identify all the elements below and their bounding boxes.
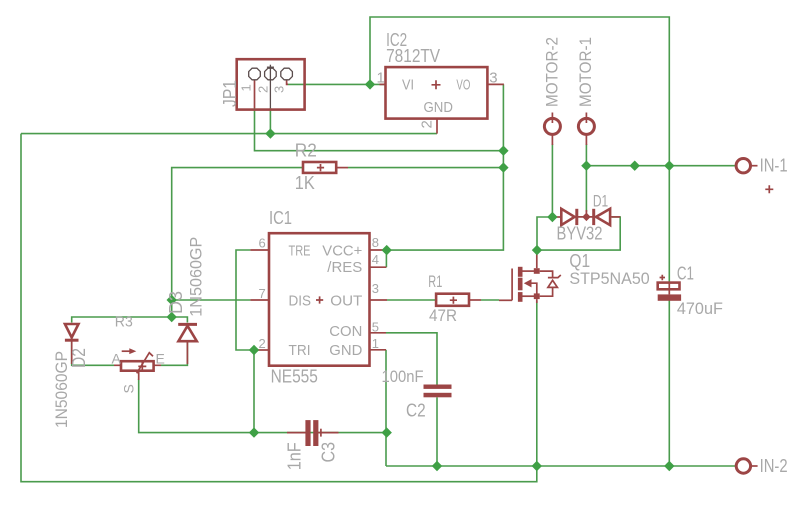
svg-text:E: E [156, 350, 165, 366]
svg-text:5: 5 [372, 320, 379, 335]
svg-text:1N5060GP: 1N5060GP [187, 237, 206, 317]
wire pot wiper down [139, 379, 387, 433]
label IC1 [269, 208, 292, 228]
junction D2-D3 node [167, 312, 177, 322]
wire node to D2 anode [72, 317, 172, 323]
junction DIS node [167, 295, 177, 305]
wire C2 bottom to ground rail [436, 397, 438, 466]
svg-text:A: A [112, 350, 122, 366]
diode D2 1N5060GP [65, 324, 79, 364]
svg-text:1: 1 [239, 84, 254, 91]
junction C1 top rail [664, 161, 674, 171]
label 100nF [382, 367, 424, 386]
wire MOTOR-1 to D1 center [585, 166, 587, 212]
wire CON to C2 [386, 333, 437, 385]
svg-text:470uF: 470uF [677, 299, 723, 318]
junction IC2 pin1 [365, 79, 375, 89]
pad JP1-1 [249, 68, 261, 80]
svg-text:GND: GND [329, 342, 362, 359]
resistor R2 [303, 162, 348, 173]
pin name GND (IC1) [329, 342, 362, 359]
svg-text:1K: 1K [295, 173, 315, 193]
pad MOTOR-2 [544, 113, 560, 146]
svg-text:MOTOR-2: MOTOR-2 [543, 37, 562, 107]
pin name A [112, 350, 122, 366]
pin name TRI [289, 342, 311, 359]
svg-text:8: 8 [372, 235, 379, 250]
svg-text:R2: R2 [295, 141, 317, 161]
pad MOTOR-1 [578, 113, 594, 146]
label MOTOR-2 [543, 37, 562, 107]
svg-text:2: 2 [259, 336, 266, 351]
mosfet Q1 STP5NA50 [499, 252, 561, 303]
pin name VO [456, 77, 470, 94]
svg-text:VCC+: VCC+ [322, 242, 362, 259]
svg-text:R1: R1 [428, 272, 442, 291]
svg-text:C1: C1 [677, 264, 694, 284]
svg-text:OUT: OUT [330, 292, 362, 309]
pin number 1 [372, 336, 379, 351]
label 1K [295, 173, 315, 193]
svg-text:DIS: DIS [289, 292, 312, 309]
junction +12V / JP1 pin1 [498, 146, 508, 156]
wire TRE to TRI jog [236, 250, 254, 433]
pin number 6 [259, 235, 266, 250]
svg-text:100nF: 100nF [382, 367, 424, 386]
pin number IC2-3 [489, 70, 497, 87]
label D2 [69, 348, 89, 368]
pin name TRE [289, 242, 311, 259]
wire DIS pin7 [172, 299, 251, 301]
junction GND pin1 wiper [382, 427, 392, 437]
label 1N5060GP (D3) [187, 237, 206, 317]
label IC2 [386, 30, 407, 50]
label 1nF [285, 442, 305, 470]
svg-text:R3: R3 [115, 314, 133, 331]
svg-text:2: 2 [418, 120, 435, 128]
pin number 8 [372, 235, 379, 250]
label 1N5060GP (D2) [52, 351, 71, 428]
wire JP1 pin1 to +12V rail [255, 108, 504, 151]
svg-text:C2: C2 [406, 400, 426, 420]
pin name /RES [327, 259, 362, 276]
wire ground rail horizontal [21, 133, 437, 135]
label IN-1 [760, 155, 788, 175]
label C1 [677, 264, 694, 284]
svg-text:1nF: 1nF [285, 442, 305, 470]
pin number JP1-2 [255, 86, 270, 93]
wire D2 cathode to pot A [72, 342, 114, 366]
junction JP1 pin2 gnd [265, 128, 275, 138]
wire ground rail to IN-2 [669, 465, 735, 467]
wire R2 left to DIS node [172, 168, 303, 317]
svg-text:D3: D3 [166, 291, 186, 314]
wire Q1 source down [536, 301, 538, 466]
svg-text:VO: VO [456, 77, 470, 94]
svg-text:3: 3 [372, 281, 379, 296]
label R1 [428, 272, 442, 291]
wire ground left border down and bottom [21, 134, 537, 482]
diode D3 1N5060GP [178, 324, 197, 364]
svg-text:TRI: TRI [289, 342, 311, 359]
svg-text:7: 7 [259, 286, 266, 301]
wire JP1 pin2 ground [269, 108, 271, 134]
pad IN-1 [736, 159, 757, 173]
svg-text:IN-1: IN-1 [760, 155, 788, 175]
wire OUT to R1 [387, 299, 436, 301]
pin name GND (IC2) [424, 99, 454, 116]
junction rail mid [630, 161, 640, 171]
pad IN-2 [736, 459, 757, 473]
pin number JP1-3 [271, 86, 286, 93]
svg-text:D1: D1 [593, 192, 608, 211]
svg-text:JP1: JP1 [220, 80, 240, 107]
wire top +supply rail [370, 17, 669, 166]
svg-text:NE555: NE555 [271, 367, 318, 387]
svg-text:1N5060GP: 1N5060GP [52, 351, 71, 428]
label C2 [406, 400, 426, 420]
pin number IC2-1 [377, 70, 385, 87]
svg-text:STP5NA50: STP5NA50 [569, 269, 649, 288]
connector JP1 [237, 59, 305, 109]
wire +12V vertical from IC2 VO [387, 84, 504, 250]
wire node to D3 cathode [172, 317, 188, 323]
IC2 7812 regulator box [380, 67, 504, 134]
pin name VI [402, 77, 414, 94]
junction Q1 source gnd [532, 461, 542, 471]
wire bottom ground rail [386, 465, 669, 467]
pin number 7 [259, 286, 266, 301]
label JP1 [220, 80, 240, 107]
svg-text:VI: VI [402, 77, 414, 94]
pin number 3 [372, 281, 379, 296]
svg-text:IC1: IC1 [269, 208, 292, 228]
junction Q1 drain [532, 245, 542, 255]
wire MOTOR-1 down [585, 144, 587, 166]
label D1 [593, 192, 608, 211]
pin name OUT [330, 292, 362, 309]
junction MOTOR-1 rail [581, 161, 591, 171]
wire R2 right to +12V [348, 167, 503, 169]
svg-text:BYV32: BYV32 [557, 224, 603, 244]
label NE555 [271, 367, 318, 387]
svg-text:D2: D2 [69, 348, 89, 368]
wire MOTOR-2 down to D1 [551, 144, 553, 217]
pin number JP1-1 [239, 84, 254, 91]
pad JP1-3 [281, 68, 293, 80]
wire C1 top [668, 166, 670, 283]
pin name DIS [289, 292, 312, 309]
capacitor C3 [287, 420, 339, 446]
label Q1 [569, 251, 590, 271]
wire R1 to gate [481, 299, 499, 301]
label BYV32 [557, 224, 603, 244]
svg-text:1: 1 [377, 70, 385, 87]
dual diode D1 BYV32 [552, 209, 620, 225]
pin number 2 [259, 336, 266, 351]
svg-text:47R: 47R [429, 306, 457, 325]
label STP5NA50 [569, 269, 649, 288]
capacitor C1 470uF [658, 275, 681, 301]
pin name E [156, 350, 165, 366]
svg-text:1: 1 [372, 336, 379, 351]
wire D1 left node to drain [537, 217, 552, 250]
label 7812TV [386, 46, 440, 66]
label MOTOR-1 [576, 37, 595, 107]
wire JP1 pin3 to IC2 VI [288, 83, 386, 85]
label C3 [319, 442, 339, 463]
resistor R1 [436, 294, 481, 306]
svg-text:3: 3 [271, 86, 286, 93]
pin name VCC+ [322, 242, 362, 259]
label IN-2 [760, 456, 788, 476]
label 470uF [677, 299, 723, 318]
svg-text:2: 2 [255, 86, 270, 93]
wire IC1 pin4 jog [385, 250, 387, 267]
svg-text:C3: C3 [319, 442, 339, 463]
svg-text:/RES: /RES [327, 259, 362, 276]
svg-text:6: 6 [259, 235, 266, 250]
wire IC1 GND pin1 down [385, 350, 387, 466]
pin name CON [329, 323, 362, 340]
capacitor C2 [424, 385, 452, 398]
junction C2 gnd [432, 461, 442, 471]
potentiometer R3 [114, 348, 161, 380]
pin number IC2-2 [418, 120, 435, 128]
pin name S [121, 384, 137, 393]
label 47R [429, 306, 457, 325]
label D3 [166, 291, 186, 314]
junction +12V / R2 [498, 162, 508, 172]
pin number 5 [372, 320, 379, 335]
junction TRI pin2 [249, 345, 259, 355]
svg-text:GND: GND [424, 99, 454, 116]
wire IN-1 rail [586, 165, 735, 167]
pad JP1-2 [265, 68, 277, 80]
junction TRI wiper [249, 427, 259, 437]
label R2 [295, 141, 317, 161]
svg-text:3: 3 [489, 70, 497, 87]
wire drain loop to D1 right anode [537, 217, 620, 250]
IC1 NE555 box [250, 233, 387, 366]
junction C1 gnd [664, 461, 674, 471]
junction MOTOR-2 D1 [547, 212, 557, 222]
wire C1 bottom to ground rail [668, 301, 670, 467]
svg-text:7812TV: 7812TV [386, 46, 440, 66]
svg-text:CON: CON [329, 323, 362, 340]
plus mark IN-1 [765, 185, 773, 193]
svg-text:MOTOR-1: MOTOR-1 [576, 37, 595, 107]
svg-text:S: S [121, 384, 137, 393]
pin number 4 [372, 252, 379, 267]
svg-text:TRE: TRE [289, 242, 311, 259]
label R3 [115, 314, 133, 331]
svg-text:4: 4 [372, 252, 379, 267]
wire D3 anode to pot E [161, 341, 187, 365]
svg-text:IN-2: IN-2 [760, 456, 788, 476]
junction IC1 pin8-4 [382, 245, 392, 255]
